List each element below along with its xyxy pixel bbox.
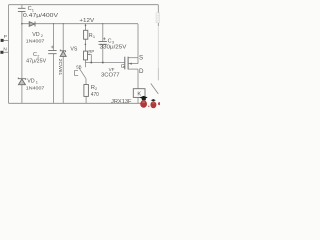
svg-text:SB: SB — [76, 64, 82, 70]
zener VS cathode bar with hooks — [60, 50, 65, 53]
wire SB top stub — [84, 63, 86, 68]
potentiometer RP box — [84, 51, 88, 60]
diode VD1 triangle — [18, 79, 25, 85]
resistor R1 box — [84, 30, 88, 39]
wire rail corner down to MOSFET source — [137, 24, 139, 58]
svg-text:D: D — [139, 68, 144, 75]
diode VD2 cathode bar — [34, 22, 36, 27]
watermark red dot right edge — [158, 102, 160, 105]
wire N terminal stub — [3, 51, 8, 53]
wire gate net — [85, 62, 124, 64]
wire C1 bottom stem to node A — [21, 12, 23, 24]
svg-text:RP: RP — [88, 49, 94, 55]
potentiometer RP wiper arrowhead — [88, 54, 90, 56]
watermark small red speck — [148, 106, 149, 108]
wire C3 upper stem — [102, 24, 104, 42]
svg-text:2CW61: 2CW61 — [57, 59, 63, 76]
wire MOSFET source stub — [128, 57, 138, 59]
svg-text:VS: VS — [70, 47, 78, 53]
wire bottom rail (N return) — [9, 102, 142, 104]
wire R2 bottom to rail — [85, 96, 87, 103]
svg-text:G: G — [121, 64, 125, 70]
capacitor C2 polarity plus — [51, 46, 54, 49]
wire relay coil to bottom rail — [137, 97, 139, 103]
MOSFET VF gate bar — [124, 57, 126, 70]
svg-text:VD: VD — [32, 32, 40, 38]
svg-text:1: 1 — [32, 7, 35, 12]
capacitor C3 polarity plus — [103, 37, 106, 40]
watermark left figure cap — [140, 96, 148, 100]
svg-text:K: K — [137, 91, 141, 97]
relay K coil box — [133, 89, 145, 98]
junction gate x C3 — [102, 62, 104, 64]
svg-text:0.47μ/400V: 0.47μ/400V — [23, 13, 59, 19]
svg-text:JRX13F: JRX13F — [111, 99, 132, 105]
wire top rail (P live) — [9, 4, 159, 6]
wire left border (P/N feed) — [8, 5, 10, 104]
wire C3 lower stem to gate wire — [102, 44, 104, 62]
zener VS triangle — [60, 51, 66, 56]
wire C1 top stem — [21, 5, 23, 8]
junction rail x C2 — [53, 23, 54, 24]
resistor R2 box — [84, 85, 89, 97]
svg-text:P: P — [4, 34, 7, 39]
wire zener VS column — [62, 24, 64, 104]
junction rail x C3 — [102, 23, 103, 24]
wire MOSFET drain stub — [128, 68, 138, 70]
switch SB actuator bracket — [75, 70, 79, 75]
svg-text:3CO77: 3CO77 — [101, 73, 120, 79]
diode VD2 triangle — [29, 22, 34, 27]
svg-text:47μ/25V: 47μ/25V — [26, 58, 47, 64]
MOSFET VF channel bar — [127, 57, 129, 70]
junction rail x VS — [63, 23, 64, 24]
svg-text:1: 1 — [93, 34, 95, 39]
wire RP wiper drop — [88, 54, 91, 62]
wire RP bottom to gate wire — [84, 60, 86, 63]
relay contact blade — [151, 84, 159, 94]
svg-text:2: 2 — [41, 33, 43, 38]
svg-text:+12V: +12V — [79, 18, 94, 24]
terminal P square — [1, 39, 4, 42]
wire +12V rail through VD2 — [22, 23, 138, 25]
watermark left figure body — [140, 100, 147, 107]
wire drain to relay coil — [137, 69, 139, 89]
capacitor C1 plates — [18, 8, 26, 11]
junction R1-RP wire dot — [85, 44, 87, 46]
wire VD1 column node A to bottom rail — [21, 24, 23, 104]
svg-text:1: 1 — [36, 80, 38, 85]
svg-text:S: S — [139, 55, 143, 62]
svg-text:330μ/25V: 330μ/25V — [100, 45, 128, 51]
diode VD1 cathode bar — [18, 78, 25, 80]
junction node A — [21, 23, 23, 25]
svg-text:1N4007: 1N4007 — [26, 38, 45, 44]
decorative faint stamp top right — [156, 13, 160, 23]
svg-text:1N4007: 1N4007 — [26, 86, 45, 92]
svg-text:VD: VD — [27, 78, 35, 84]
wire MOSFET body stub — [128, 63, 138, 65]
capacitor C3 plates — [99, 42, 107, 45]
svg-text:2: 2 — [95, 86, 97, 91]
wire C2 lower stem — [53, 54, 55, 104]
wire R1 bottom to RP top — [85, 39, 87, 51]
switch SB blade — [79, 68, 86, 79]
capacitor C2 plates — [48, 51, 56, 54]
wire SB to R2 — [85, 79, 87, 85]
junction rail x R1 — [85, 25, 87, 27]
junction gate x wiper — [90, 62, 92, 64]
wire C2 upper stem — [53, 24, 55, 51]
wire rail to R1 top — [85, 24, 87, 31]
svg-text:470: 470 — [91, 92, 99, 98]
terminal N square — [0, 51, 3, 54]
wire P terminal stub — [4, 39, 9, 41]
wire right edge drop to relay contact — [157, 5, 159, 26]
svg-text:N: N — [3, 46, 6, 51]
MOSFET VF body arrow — [129, 63, 132, 65]
watermark right figure body — [150, 101, 156, 108]
wire source tie — [137, 58, 139, 64]
watermark right figure cap — [151, 99, 156, 101]
